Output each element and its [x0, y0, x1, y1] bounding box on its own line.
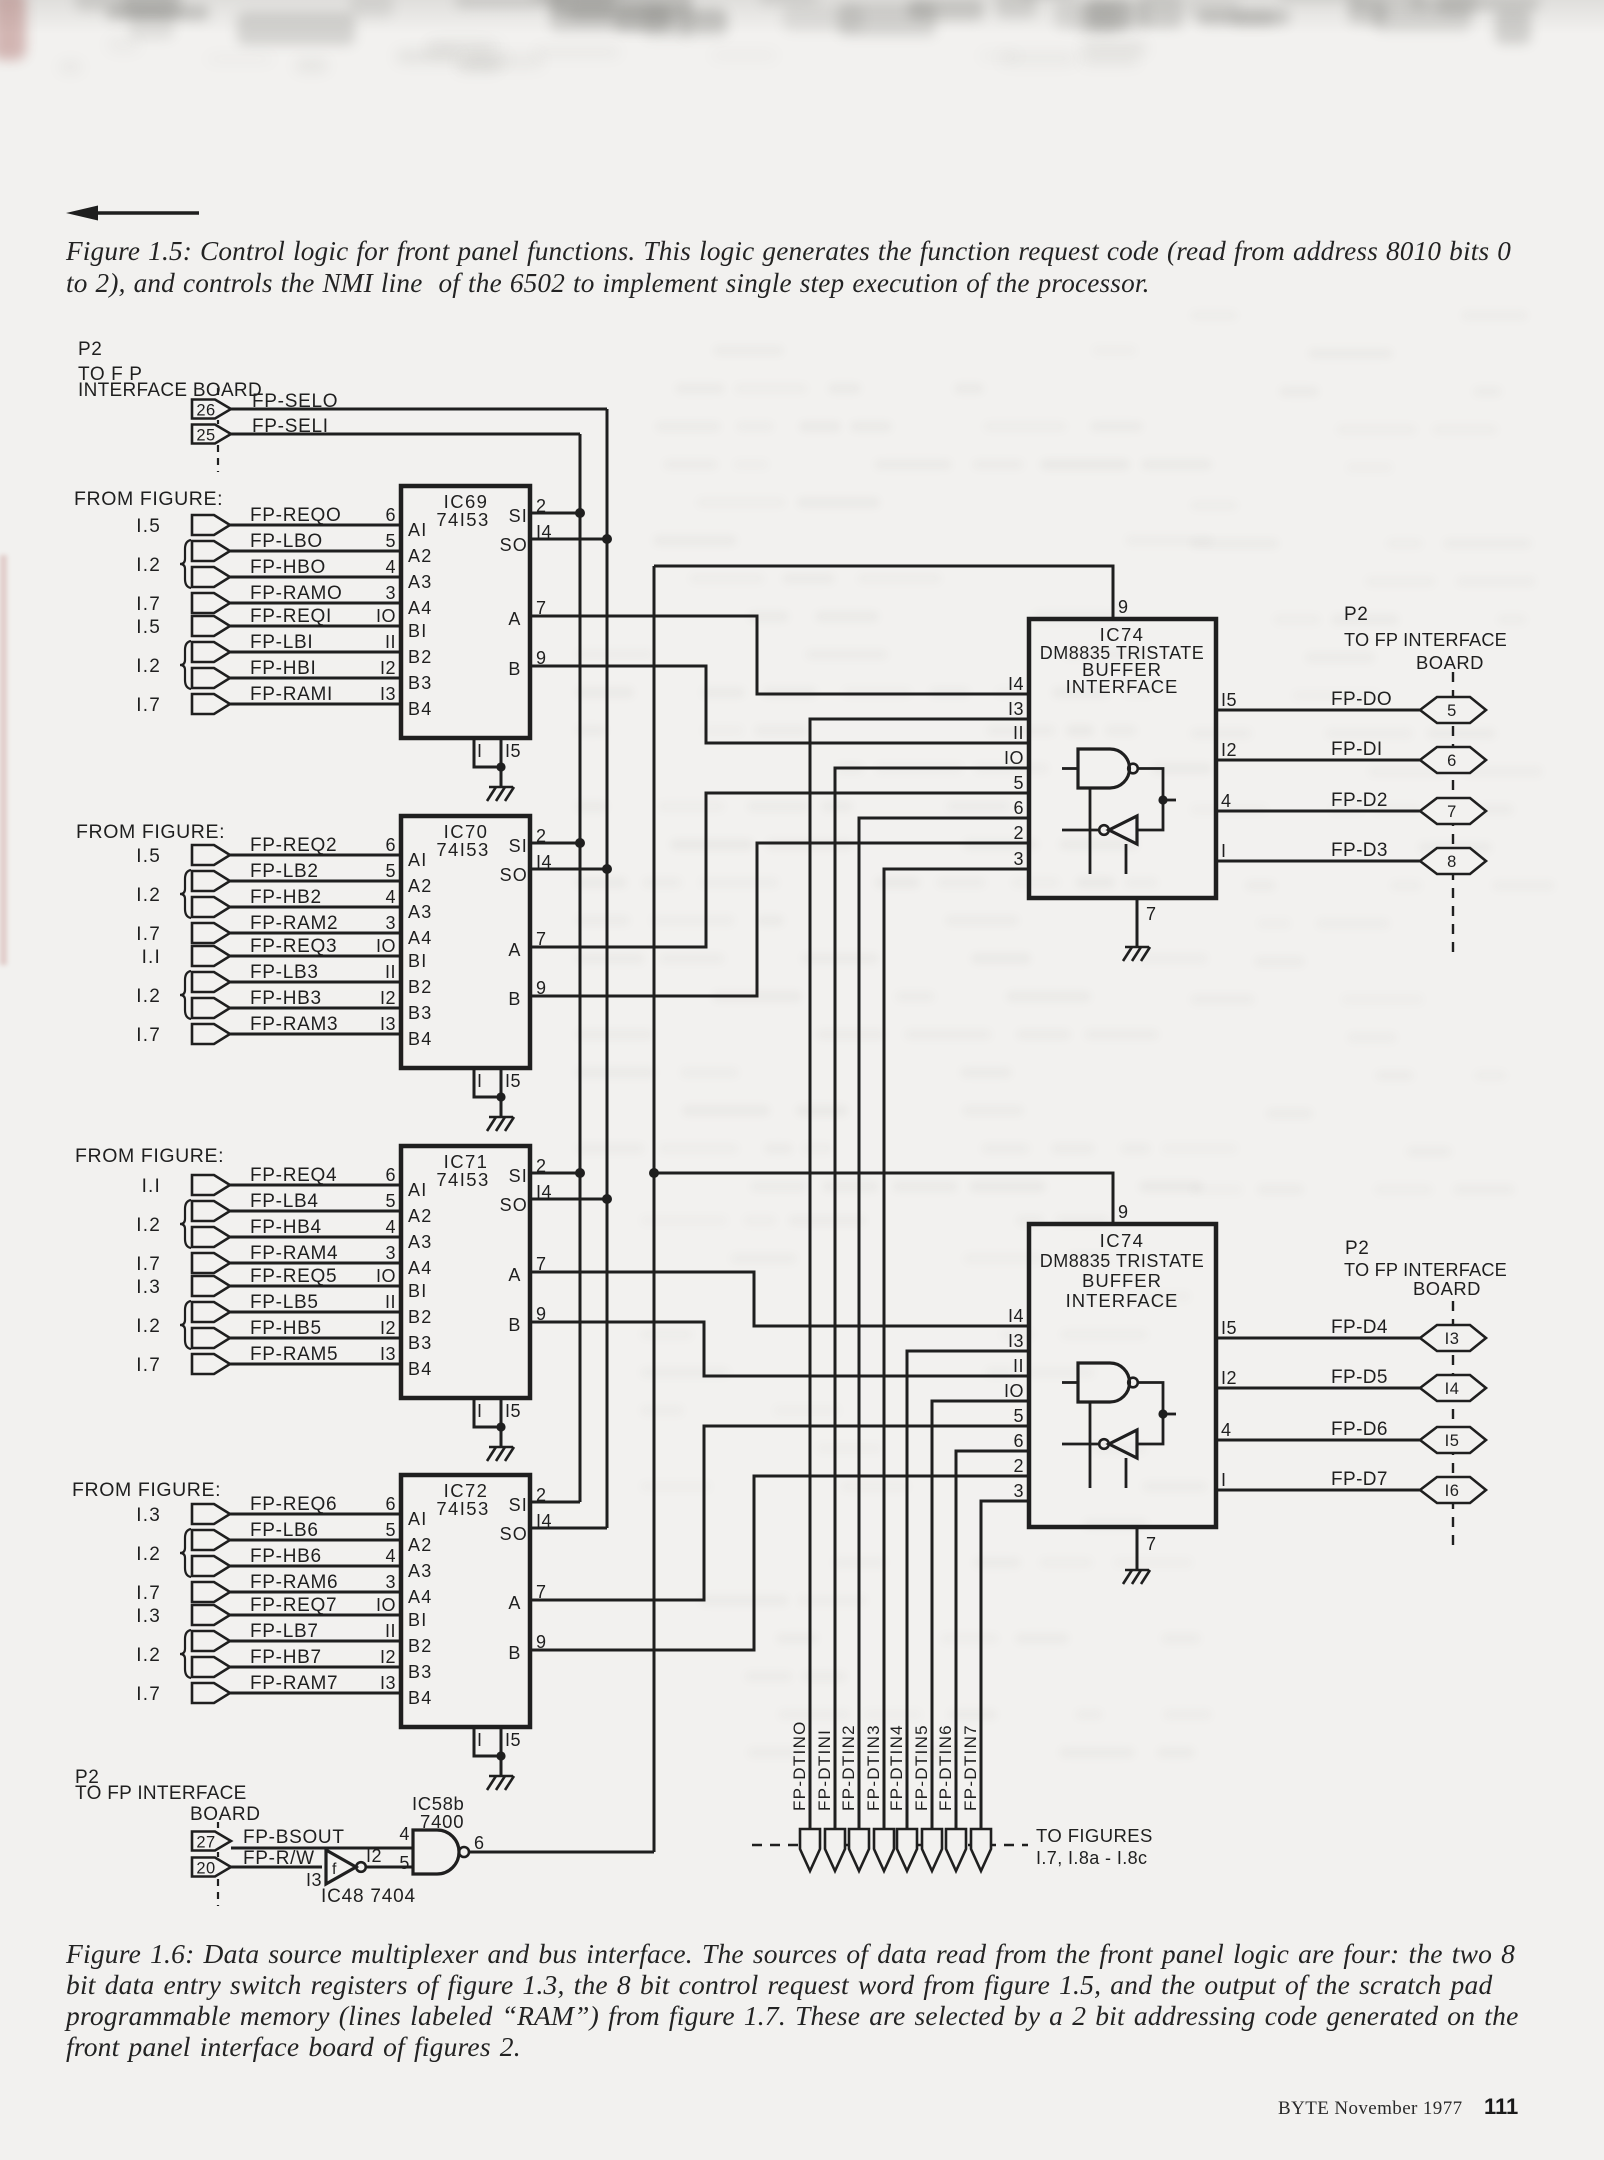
- svg-text:I2: I2: [1221, 740, 1237, 760]
- inverter inside IC74a: [1062, 816, 1137, 874]
- wire FP-RAM6 to IC72 pin 3: [230, 1591, 401, 1594]
- svg-text:B2: B2: [408, 977, 432, 997]
- svg-text:FP-DTIN7: FP-DTIN7: [961, 1724, 980, 1811]
- pin number 4 (IC71 A3): [385, 1217, 396, 1237]
- input tag FP-HB2: [192, 897, 230, 917]
- svg-text:6: 6: [385, 1165, 396, 1185]
- svg-text:BI: BI: [408, 1281, 427, 1301]
- header INTERFACE BOARD: [78, 380, 262, 401]
- label FP-LB6: [250, 1520, 319, 1541]
- svg-text:B3: B3: [408, 1662, 432, 1682]
- wire IC74a pin I2 to connector 6: [1216, 759, 1420, 762]
- pin number II (IC70 B2): [385, 962, 396, 982]
- svg-text:I2: I2: [380, 1647, 396, 1667]
- multiplexer IC70 74153 body: [401, 816, 530, 1068]
- svg-text:3: 3: [385, 1572, 396, 1592]
- pin number I4 (IC70 SO): [536, 852, 552, 872]
- IC71 pin I5 stub: [500, 1398, 503, 1447]
- wire IC72 SO from bus: [529, 1527, 607, 1530]
- svg-text:I3: I3: [380, 1344, 396, 1364]
- svg-text:I3: I3: [1445, 1330, 1460, 1348]
- svg-text:I: I: [477, 1071, 483, 1091]
- junction IC72 pins I+I5: [496, 1751, 505, 1760]
- dashed connector line (IC74a): [1452, 672, 1454, 952]
- svg-text:TO FP INTERFACE: TO FP INTERFACE: [1344, 1260, 1507, 1280]
- svg-text:SO: SO: [500, 1524, 528, 1544]
- pin number I2 (IC74b right): [1221, 1368, 1237, 1388]
- svg-text:BI: BI: [408, 951, 427, 971]
- svg-text:I.7: I.7: [136, 1355, 161, 1376]
- svg-text:AI: AI: [408, 1509, 427, 1529]
- wire FP-SELO horizontal: [231, 408, 607, 411]
- buffer IC74b DM8835 body: [1029, 1224, 1216, 1527]
- caption figure 1.6: [66, 1938, 1604, 2062]
- input tag FP-RAMO: [192, 593, 230, 613]
- net label FP-SELI: [252, 416, 329, 437]
- input tag FP-LB3: [192, 972, 230, 992]
- svg-text:A3: A3: [408, 572, 432, 592]
- pin number IO (IC69 BI): [376, 606, 396, 626]
- pin label BI inside IC72: [408, 1610, 427, 1630]
- svg-text:FP-HB5: FP-HB5: [250, 1318, 322, 1339]
- svg-text:I.3: I.3: [136, 1505, 161, 1526]
- pin label B3 inside IC72: [408, 1662, 432, 1682]
- figure reference I.7 (IC72): [136, 1583, 161, 1604]
- svg-text:I3: I3: [380, 1014, 396, 1034]
- svg-text:B2: B2: [408, 1636, 432, 1656]
- header FROM FIGURE (IC69 group): [74, 488, 223, 510]
- junction IC69 pins I+I5: [496, 762, 505, 771]
- label FP-REQI: [250, 606, 332, 627]
- svg-text:I.7: I.7: [136, 1025, 161, 1046]
- net label FP-D3: [1331, 840, 1388, 861]
- dashed connector line (tags 26/25): [217, 388, 219, 472]
- pin label A4 inside IC69: [408, 598, 432, 618]
- net label FP-D7: [1331, 1469, 1388, 1490]
- wire FP-DTIN4 from IC74b: [907, 1351, 1029, 1829]
- svg-text:FP-REQ7: FP-REQ7: [250, 1595, 337, 1616]
- svg-text:B4: B4: [408, 1029, 432, 1049]
- pin number 3 (IC74a left): [1013, 849, 1024, 869]
- pin number I4 (IC74a left): [1008, 674, 1024, 694]
- svg-text:4: 4: [385, 887, 396, 907]
- wire IC72 SI from bus: [529, 1501, 580, 1504]
- wire NAND output to inverter (IC74a): [1137, 769, 1176, 831]
- IC71 SI label: [509, 1166, 528, 1186]
- connector tag 20 (FP-R/W): [192, 1858, 231, 1878]
- svg-text:74I53: 74I53: [436, 509, 489, 530]
- label FP-LB4: [250, 1191, 319, 1212]
- figure reference I.2 (IC72): [136, 1544, 161, 1565]
- label FP-REQO: [250, 505, 341, 526]
- figure reference I.2 (IC72): [136, 1645, 161, 1666]
- svg-text:I.7: I.7: [136, 594, 161, 615]
- svg-text:A4: A4: [408, 1587, 432, 1607]
- pin label A2 inside IC71: [408, 1206, 432, 1226]
- input tag FP-RAMI: [192, 694, 230, 714]
- svg-text:FP-D2: FP-D2: [1331, 790, 1388, 811]
- svg-text:P2: P2: [1345, 1238, 1369, 1259]
- input tag FP-REQ4: [192, 1175, 230, 1195]
- pin number I2 (IC71 B3): [380, 1318, 396, 1338]
- svg-text:6: 6: [1013, 798, 1024, 818]
- svg-text:II: II: [1013, 723, 1024, 743]
- wire FP-HB5 to IC71 pin I2: [230, 1337, 401, 1340]
- pin number 6 (IC74a left): [1013, 798, 1024, 818]
- label FP-RAM2: [250, 913, 338, 934]
- junction FP-SELI / IC69 SI: [575, 508, 585, 518]
- svg-text:B4: B4: [408, 1688, 432, 1708]
- svg-text:FP-RAM6: FP-RAM6: [250, 1572, 338, 1593]
- svg-text:IO: IO: [376, 1266, 396, 1286]
- IC69 SI label: [509, 506, 528, 526]
- wire FP-DTIN2 from IC74a: [859, 818, 1029, 1829]
- IC72 pin I stub: [474, 1727, 501, 1756]
- svg-text:A3: A3: [408, 902, 432, 922]
- pin label B2 inside IC71: [408, 1307, 432, 1327]
- svg-text:AI: AI: [408, 850, 427, 870]
- pin number 6 (IC72 AI): [385, 1494, 396, 1514]
- label FP-HB7: [250, 1647, 322, 1668]
- input tag FP-RAM5: [192, 1354, 230, 1374]
- wire FP-HB2 to IC70 pin 4: [230, 906, 401, 909]
- ground (IC72 pin I5): [487, 1776, 514, 1790]
- buffer IC74a DM8835 body: [1029, 619, 1216, 898]
- svg-text:FP-HBO: FP-HBO: [250, 557, 326, 578]
- pin number I3 (IC74a left): [1008, 699, 1024, 719]
- pin number 5 (IC74a left): [1013, 773, 1024, 793]
- svg-text:SI: SI: [509, 836, 528, 856]
- NAND gate inside IC74b: [1062, 1363, 1138, 1488]
- IC69 pin I stub: [474, 738, 501, 767]
- svg-text:74I53: 74I53: [436, 839, 489, 860]
- svg-text:FP-RAM2: FP-RAM2: [250, 913, 338, 934]
- header P2 (IC74a): [1344, 604, 1368, 625]
- wire FP-SELI horizontal: [231, 433, 580, 436]
- svg-text:5: 5: [385, 1191, 396, 1211]
- figure reference I.2 (IC71): [136, 1316, 161, 1337]
- svg-text:FP-RAMI: FP-RAMI: [250, 684, 333, 705]
- pin number I (IC72): [477, 1730, 483, 1750]
- header BOARD (bottom left): [190, 1804, 261, 1825]
- svg-text:B4: B4: [408, 699, 432, 719]
- wire IC71 B to IC74b pin II: [530, 1322, 1029, 1376]
- label figure list I.7, I.8a - I.8c: [1036, 1848, 1147, 1868]
- pin label B4 inside IC69: [408, 699, 432, 719]
- pin number 5 (IC58b): [399, 1853, 410, 1873]
- svg-text:I5: I5: [505, 1401, 521, 1421]
- net label FP-DTIN4 (rotated): [887, 1724, 906, 1811]
- net label FP-DTIN7 (rotated): [961, 1724, 980, 1811]
- pin number 4 (IC74a right): [1221, 791, 1232, 811]
- svg-text:4: 4: [385, 1546, 396, 1566]
- svg-text:A2: A2: [408, 1535, 432, 1555]
- svg-text:6: 6: [385, 835, 396, 855]
- pin number 6 (IC69 AI): [385, 505, 396, 525]
- svg-text:4: 4: [399, 1824, 410, 1844]
- svg-text:FP-HB2: FP-HB2: [250, 887, 322, 908]
- pin number 4 (IC69 A3): [385, 557, 396, 577]
- svg-text:TO FP INTERFACE: TO FP INTERFACE: [75, 1783, 247, 1804]
- svg-text:I4: I4: [1008, 674, 1024, 694]
- pin number I3 (IC48 in): [306, 1870, 322, 1890]
- wire FP-DTIN7 from IC74b: [981, 1501, 1029, 1829]
- pin number IO (IC71 BI): [376, 1266, 396, 1286]
- pin number I (IC74a right): [1221, 841, 1227, 861]
- pin number I4 (IC71 SO): [536, 1182, 552, 1202]
- svg-text:4: 4: [385, 1217, 396, 1237]
- svg-text:FP-D5: FP-D5: [1331, 1367, 1388, 1388]
- IC72 A output label: [508, 1593, 521, 1613]
- pin label BI inside IC70: [408, 951, 427, 971]
- pin number I3 (IC70 B4): [380, 1014, 396, 1034]
- figure reference I.7 (IC71): [136, 1355, 161, 1376]
- pin number I2 (IC48 out): [366, 1846, 382, 1866]
- svg-text:6: 6: [1013, 1431, 1024, 1451]
- ground (IC74a pin 7): [1123, 947, 1150, 961]
- input tag FP-HB7: [192, 1657, 230, 1677]
- svg-text:FP-RAMO: FP-RAMO: [250, 583, 343, 604]
- wire IC74b pin I5 to connector I3: [1216, 1337, 1420, 1340]
- svg-text:A4: A4: [408, 1258, 432, 1278]
- svg-text:4: 4: [1221, 791, 1232, 811]
- svg-text:74I53: 74I53: [436, 1498, 489, 1519]
- wire FP-RAM3 to IC70 pin I3: [230, 1033, 401, 1036]
- IC72 B output label: [508, 1643, 521, 1663]
- wire enable to IC74a pin 9: [654, 566, 1113, 619]
- input tag FP-HBO: [192, 567, 230, 587]
- svg-text:I.5: I.5: [136, 846, 161, 867]
- wire FP-RAMO to IC69 pin 3: [230, 602, 401, 605]
- svg-text:A4: A4: [408, 598, 432, 618]
- pin number I5 (IC70): [505, 1071, 521, 1091]
- pin label AI inside IC72: [408, 1509, 427, 1529]
- IC69 SO label: [500, 535, 528, 555]
- pin number 7 (IC71 A): [536, 1254, 547, 1274]
- connector arrow FP-DTIN1: [825, 1829, 845, 1871]
- pin label A4 inside IC71: [408, 1258, 432, 1278]
- pin number 4 (IC74b right): [1221, 1420, 1232, 1440]
- ground (IC71 pin I5): [487, 1447, 514, 1461]
- header BOARD (IC74b): [1413, 1278, 1481, 1299]
- svg-text:I.2: I.2: [136, 885, 161, 906]
- svg-text:2: 2: [1013, 1456, 1024, 1476]
- svg-text:I.I: I.I: [142, 1176, 161, 1197]
- connector tag 27 (FP-BSOUT): [192, 1832, 231, 1852]
- IC72 pin I5 stub: [500, 1727, 503, 1776]
- inverter IC48 7404: [326, 1850, 366, 1884]
- wire IC72 B to IC74b pin 2: [530, 1476, 1029, 1650]
- junction enable branch: [649, 1168, 659, 1178]
- svg-text:I.2: I.2: [136, 986, 161, 1007]
- svg-text:FP-REQ6: FP-REQ6: [250, 1494, 337, 1515]
- svg-text:BOARD: BOARD: [190, 1804, 261, 1825]
- pin number 9 (IC69 B): [536, 648, 547, 668]
- pin number 6 (IC58b out): [474, 1833, 485, 1853]
- net label FP-DO: [1331, 689, 1392, 710]
- label FP-REQ5: [250, 1266, 337, 1287]
- pin number 3 (IC71 A4): [385, 1243, 396, 1263]
- IC71 A output label: [508, 1265, 521, 1285]
- svg-text:SO: SO: [500, 865, 528, 885]
- svg-text:I.3: I.3: [136, 1277, 161, 1298]
- connector tag 6 (FP-DI): [1420, 747, 1486, 773]
- net label FP-D2: [1331, 790, 1388, 811]
- pin label A2 inside IC72: [408, 1535, 432, 1555]
- svg-text:FP-REQ5: FP-REQ5: [250, 1266, 337, 1287]
- arrow (figure 1.5 pointer): [66, 206, 199, 221]
- label INTERFACE (IC74b): [1066, 1290, 1179, 1311]
- pin label B3 inside IC71: [408, 1333, 432, 1353]
- figure reference I.7 (IC69): [136, 695, 161, 716]
- header TO FP INTERFACE (IC74a): [1344, 630, 1507, 650]
- svg-text:P2: P2: [78, 339, 102, 360]
- svg-text:5: 5: [1013, 1406, 1024, 1426]
- pin number 9 (IC70 B): [536, 978, 547, 998]
- label FP-LBI: [250, 632, 313, 653]
- connector tag 26 (P2): [192, 400, 231, 420]
- wire FP-REQ6 to IC72 pin 6: [230, 1513, 401, 1516]
- net label FP-D5: [1331, 1367, 1388, 1388]
- svg-text:A2: A2: [408, 1206, 432, 1226]
- svg-text:FP-DTINI: FP-DTINI: [815, 1729, 834, 1811]
- junction internal (IC74a): [1158, 795, 1167, 804]
- IC69 A output label: [508, 609, 521, 629]
- brace grouping (IC70 rows): [180, 870, 191, 918]
- svg-text:FP-LB6: FP-LB6: [250, 1520, 319, 1541]
- connector arrow FP-DTIN4: [897, 1829, 917, 1871]
- pin number 2 (IC70 SI): [536, 826, 547, 846]
- input tag FP-RAM7: [192, 1683, 230, 1703]
- svg-text:FP-LB7: FP-LB7: [250, 1621, 319, 1642]
- header FROM FIGURE (IC71 group): [75, 1145, 224, 1167]
- label FP-LB7: [250, 1621, 319, 1642]
- footer: [1278, 2098, 1463, 2120]
- dashed connector line (IC74b): [1452, 1301, 1454, 1548]
- pin number I2 (IC72 B3): [380, 1647, 396, 1667]
- pin label AI inside IC71: [408, 1180, 427, 1200]
- svg-text:6: 6: [385, 1494, 396, 1514]
- net label FP-DTIN5 (rotated): [912, 1724, 931, 1811]
- figure reference I.5 (IC69): [136, 617, 161, 638]
- svg-text:I.7, I.8a - I.8c: I.7, I.8a - I.8c: [1036, 1848, 1147, 1868]
- svg-text:7: 7: [1146, 904, 1157, 924]
- wire FP-HBI to IC69 pin I2: [230, 677, 401, 680]
- pin number 2 (IC72 SI): [536, 1485, 547, 1505]
- wire FP-DTIN5 from IC74b: [932, 1401, 1029, 1829]
- wire IC74a pin I5 to connector 5: [1216, 709, 1420, 712]
- svg-text:BUFFER: BUFFER: [1082, 1270, 1162, 1291]
- svg-text:FP-HBI: FP-HBI: [250, 658, 316, 679]
- wire IC74a pin I to connector 8: [1216, 860, 1420, 863]
- svg-text:BOARD: BOARD: [1416, 652, 1484, 673]
- IC72 SI label: [509, 1495, 528, 1515]
- svg-text:IO: IO: [376, 1595, 396, 1615]
- junction FP-SELO / IC69 SO: [602, 534, 612, 544]
- svg-text:3: 3: [385, 1243, 396, 1263]
- pin number 9 (IC72 B): [536, 1632, 547, 1652]
- svg-text:A: A: [508, 609, 521, 629]
- svg-text:IO: IO: [1004, 1381, 1024, 1401]
- wire IC71 SI to FP-SELI bus: [530, 1172, 580, 1175]
- svg-text:3: 3: [1013, 1481, 1024, 1501]
- input tag FP-HBI: [192, 668, 230, 688]
- label IC74 (IC74b): [1100, 1230, 1145, 1251]
- figure reference I.2 (IC71): [136, 1215, 161, 1236]
- svg-text:INTERFACE BOARD: INTERFACE BOARD: [78, 380, 262, 401]
- pin label A3 inside IC70: [408, 902, 432, 922]
- svg-text:9: 9: [1118, 597, 1129, 617]
- pin label A3 inside IC71: [408, 1232, 432, 1252]
- wire FP-REQ3 to IC70 pin IO: [230, 955, 401, 958]
- ground (IC74b pin 7): [1123, 1570, 1150, 1584]
- svg-text:B2: B2: [408, 1307, 432, 1327]
- svg-text:I2: I2: [380, 988, 396, 1008]
- figure pointer arrow: [0, 0, 1604, 240]
- connector arrow FP-DTIN5: [922, 1829, 942, 1871]
- svg-text:I: I: [1221, 1470, 1227, 1490]
- svg-text:I.7: I.7: [136, 695, 161, 716]
- svg-text:74I53: 74I53: [436, 1169, 489, 1190]
- pin number 6 (IC74b left): [1013, 1431, 1024, 1451]
- pin number 2 (IC69 SI): [536, 496, 547, 516]
- connector tag 8 (FP-D3): [1420, 848, 1486, 874]
- svg-text:8: 8: [1447, 853, 1457, 871]
- figure reference I.I (IC70): [142, 947, 161, 968]
- pin label A2 inside IC69: [408, 546, 432, 566]
- header P2 (IC74b): [1345, 1238, 1369, 1259]
- connector tag I3 (FP-D4): [1420, 1325, 1486, 1351]
- net label FP-SELO: [252, 391, 338, 412]
- svg-text:I3: I3: [1008, 699, 1024, 719]
- svg-text:A: A: [508, 1593, 521, 1613]
- input tag FP-LB5: [192, 1302, 230, 1322]
- IC69 B output label: [508, 659, 521, 679]
- pin number 3 (IC74b left): [1013, 1481, 1024, 1501]
- svg-text:IO: IO: [376, 606, 396, 626]
- svg-text:SI: SI: [509, 1166, 528, 1186]
- svg-text:I5: I5: [1221, 690, 1237, 710]
- svg-text:5: 5: [1447, 702, 1457, 720]
- label FP-LBO: [250, 531, 323, 552]
- wire FP-REQ2 to IC70 pin 6: [230, 854, 401, 857]
- brace grouping (IC71 rows): [180, 1301, 191, 1349]
- connector tag 5 (FP-DO): [1420, 697, 1486, 723]
- svg-text:I3: I3: [380, 1673, 396, 1693]
- svg-text:FROM FIGURE:: FROM FIGURE:: [75, 1145, 224, 1167]
- ground (IC69 pin I5): [487, 787, 514, 801]
- pin number 7 (IC74a): [1146, 904, 1157, 924]
- header FROM FIGURE (IC70 group): [76, 821, 225, 843]
- pin number 7 (IC74b): [1146, 1534, 1157, 1554]
- svg-text:FP-REQO: FP-REQO: [250, 505, 341, 526]
- input tag FP-RAM4: [192, 1253, 230, 1273]
- label FP-RAM7: [250, 1673, 338, 1694]
- label DM8835 TRISTATE (IC74b): [1040, 1251, 1205, 1271]
- svg-text:I.I: I.I: [142, 947, 161, 968]
- input tag FP-HB5: [192, 1328, 230, 1348]
- label FP-RAM4: [250, 1243, 338, 1264]
- caption figure 1.5: [66, 235, 1586, 299]
- svg-text:I.2: I.2: [136, 1544, 161, 1565]
- label FP-HB6: [250, 1546, 322, 1567]
- svg-text:4: 4: [385, 557, 396, 577]
- wire FP-LB6 to IC72 pin 5: [230, 1539, 401, 1542]
- wire IC58b output to enable bus: [469, 1851, 654, 1854]
- wire FP-HB7 to IC72 pin I2: [230, 1666, 401, 1669]
- svg-text:B3: B3: [408, 673, 432, 693]
- svg-text:I.5: I.5: [136, 617, 161, 638]
